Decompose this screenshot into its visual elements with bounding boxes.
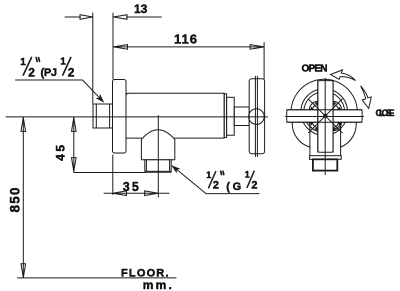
bonnet xyxy=(227,97,235,135)
CLOSE arrow xyxy=(361,86,372,109)
handle outer circle xyxy=(291,79,357,122)
handle crossbar (side view) xyxy=(249,79,264,154)
outlet nut front xyxy=(313,159,337,170)
front view horizontal centerline xyxy=(286,116,364,118)
crossbar center double line xyxy=(254,76,256,156)
main axis centerline xyxy=(6,116,268,118)
elbow outlet boss xyxy=(141,130,174,160)
dim 45 xyxy=(72,117,77,171)
handle skirt fillet right xyxy=(341,122,357,147)
body end ring xyxy=(224,94,226,138)
OPEN arrow xyxy=(331,70,356,81)
label 1/2"(G 1/2 leader xyxy=(173,166,206,193)
svg-text:(G: (G xyxy=(226,181,241,193)
svg-text:13: 13 xyxy=(134,2,148,16)
neck below handle xyxy=(309,123,311,156)
svg-text:(PJ: (PJ xyxy=(41,67,58,79)
handle skirt fillet left xyxy=(292,122,310,147)
inlet nipple (threaded, 1/2 PJ) xyxy=(93,104,113,128)
svg-text:1: 1 xyxy=(20,57,26,68)
svg-text:45: 45 xyxy=(53,145,67,161)
svg-text:116: 116 xyxy=(174,32,197,47)
horizontal handle bar xyxy=(287,110,362,122)
svg-text:1: 1 xyxy=(245,170,250,180)
vertical handle bar xyxy=(318,81,333,153)
dim 13 extension line left xyxy=(92,13,94,103)
dim 850 xyxy=(21,117,26,277)
corner web shadows xyxy=(310,102,341,130)
svg-text:CLOSE: CLOSE xyxy=(376,108,395,118)
svg-text:OPEN: OPEN xyxy=(302,64,328,75)
label 1/2"(PJ) 1/2 text xyxy=(20,57,75,80)
corner fillet arcs xyxy=(309,101,317,109)
dim 116 xyxy=(114,45,265,50)
dim 13 extension line right xyxy=(112,13,114,79)
svg-text:2: 2 xyxy=(213,179,219,191)
label 1/2"(G 1/2 text xyxy=(206,170,257,193)
collar xyxy=(310,156,342,160)
wall flange (escutcheon) xyxy=(113,80,127,154)
floor line xyxy=(18,277,177,279)
hub ring inner xyxy=(304,92,345,133)
hub ring outer xyxy=(301,89,348,136)
dim 35 xyxy=(104,191,169,196)
dim 13 xyxy=(65,15,161,20)
center dot xyxy=(323,114,327,118)
dim 45 lower reference line xyxy=(74,172,145,174)
bar edge lines across crossing xyxy=(287,109,362,111)
prime mark xyxy=(35,58,38,62)
valve body xyxy=(126,93,224,138)
svg-text:2: 2 xyxy=(251,179,257,191)
outlet nut (1/2 G thread) xyxy=(145,160,171,172)
svg-text:850: 850 xyxy=(8,188,23,213)
svg-text:mm.: mm. xyxy=(143,278,172,291)
center X webs xyxy=(308,99,342,133)
prime mark xyxy=(220,171,223,174)
svg-text:35: 35 xyxy=(123,180,139,194)
svg-text:2: 2 xyxy=(68,66,75,80)
front view vertical centerline xyxy=(324,78,326,174)
stem xyxy=(234,107,249,126)
handle hub circle (side view) xyxy=(249,109,265,125)
label 1/2"(PJ) 1/2 leader xyxy=(16,79,83,81)
svg-text:2: 2 xyxy=(28,66,35,80)
svg-text:1: 1 xyxy=(206,170,211,180)
svg-text:1: 1 xyxy=(60,57,66,68)
dim 35 extension line left xyxy=(112,155,114,195)
outlet centerline xyxy=(157,116,159,198)
dim 116 extension line right xyxy=(263,43,265,79)
